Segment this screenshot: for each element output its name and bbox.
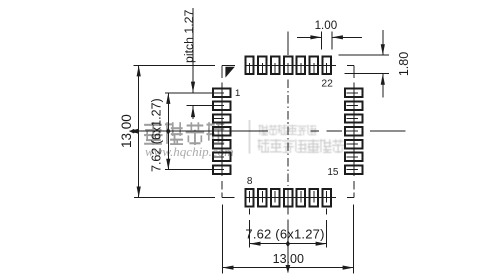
svg-text:15: 15 — [327, 167, 339, 178]
svg-text:7.62 (6x1.27): 7.62 (6x1.27) — [245, 227, 324, 242]
svg-text:7.62 (6x1.27): 7.62 (6x1.27) — [149, 98, 163, 172]
svg-text:13.00: 13.00 — [273, 252, 304, 266]
svg-text:1: 1 — [235, 88, 240, 99]
svg-text:8: 8 — [247, 176, 253, 187]
svg-text:22: 22 — [321, 78, 333, 89]
svg-text:1.00: 1.00 — [315, 19, 338, 32]
svg-text:1.80: 1.80 — [397, 52, 411, 76]
svg-text:pitch 1.27: pitch 1.27 — [182, 10, 196, 63]
